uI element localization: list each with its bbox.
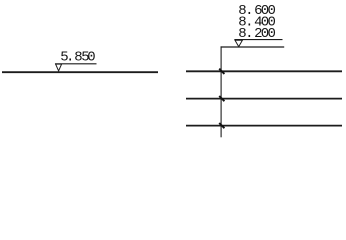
leader underline 8.200 bbox=[234, 39, 282, 41]
leader underline 5.850 bbox=[55, 63, 97, 65]
level line right 2 bbox=[186, 98, 342, 100]
tick at level line 2 bbox=[219, 96, 224, 101]
elevation triangle 8.200 bbox=[235, 40, 242, 46]
leader vertical segment bbox=[220, 46, 222, 137]
level line right 1 bbox=[186, 70, 342, 72]
CAD elevation-marker drawing bbox=[0, 0, 346, 144]
elevation triangle 5.850 bbox=[56, 64, 62, 71]
level line right 3 bbox=[186, 125, 342, 127]
leader horizontal segment bbox=[221, 46, 285, 48]
tick at level line 1 bbox=[219, 69, 224, 74]
tick at level line 3 bbox=[219, 123, 224, 128]
level line left (5.850) bbox=[2, 71, 158, 73]
svg-text:5.850: 5.850 bbox=[60, 49, 96, 65]
